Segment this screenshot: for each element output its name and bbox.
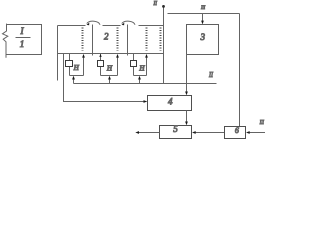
box 2 bottom edge [58,53,164,55]
box 2 top edge segment b [103,25,121,27]
shaft 1 [92,25,94,56]
svg-text:II: II [208,71,213,79]
arrow into box 3 [201,21,204,25]
heater H2 feed line [109,79,111,84]
heater H3 bottom wire [134,75,147,77]
heater H2 return line [117,58,119,76]
electrode strip A [82,28,84,51]
wire III right drop [239,14,241,127]
wire III to box 3 [202,14,204,24]
svg-text:III: III [259,119,265,126]
svg-text:H: H [106,65,113,73]
box 3 [187,25,219,55]
svg-text:5: 5 [173,124,178,134]
shaft 2 [127,25,129,56]
svg-text:1: 1 [20,39,25,49]
electrode strip D [160,28,162,51]
wire box 6 to box 5 [194,132,225,134]
svg-text:H: H [138,64,145,72]
heater H2 bottom wire [101,75,118,77]
box 1 left edge break (zigzag) [3,24,8,58]
electrode strip C [146,28,148,51]
heater H2 pin [100,54,102,76]
input III wire (right) [248,132,266,134]
box 2 right edge / terminal II line [163,7,165,84]
fraction bar [16,37,31,39]
heater H1 square [66,61,73,67]
svg-text:4: 4 [168,97,173,107]
output arrowhead (left) [135,131,139,134]
wire box 4 to box 5 [186,111,188,124]
box 4 [148,96,192,111]
arrow into box 6 right [246,131,250,134]
output wire of box 5 [137,132,160,134]
arrow into strip C [145,54,148,58]
svg-text:6: 6 [235,126,239,135]
box 5 [160,126,192,139]
heater H2 square [98,61,104,67]
heater H1 return line [83,58,85,76]
heater H3 return line [146,58,148,76]
rotation arc 1 [87,21,100,25]
arrow into box 5 right [192,131,196,134]
bus II (heater supply rail) [74,83,217,85]
wire box 3 to box 4 [186,55,188,94]
rotation arc 2 arrowhead [122,23,125,26]
box 2 top edge segment a [58,25,86,27]
electrode strip B [117,28,119,51]
svg-text:I: I [20,26,25,36]
node II (dot) [162,5,165,8]
arrow into box 4 top [185,92,188,96]
rotation arc 1 arrowhead [87,23,90,26]
heater H3 square [131,61,137,67]
svg-text:H: H [73,64,80,72]
box 1 (unit 1, input I) [6,25,42,55]
arrow into box 5 top [185,122,188,126]
svg-text:2: 2 [104,32,109,42]
heater H1 pin [69,54,71,76]
svg-text:3: 3 [200,32,206,42]
heater H1 feed line [73,79,75,84]
arrow into H3 wire [138,76,141,80]
arrow into block 4 [144,100,148,103]
box 2 top edge segment c [139,25,164,27]
heater H3 feed line [139,79,141,84]
heater H3 pin [133,54,135,76]
rail III (top) [168,13,240,15]
rotation arc 2 [122,21,135,25]
arrow into strip B [116,54,119,58]
wire from box 2 to block 4 [64,54,147,102]
box 2 body (machine, left edge) [57,26,59,81]
arrow at H2 pin top [99,54,101,57]
arrow into H1 wire [72,76,75,80]
arrow into H2 wire [108,76,111,80]
svg-text:II: II [153,1,158,7]
box 6 [225,127,246,139]
arrow into strip A [82,54,85,58]
svg-text:III: III [200,5,206,11]
heater H1 bottom wire [70,75,84,77]
